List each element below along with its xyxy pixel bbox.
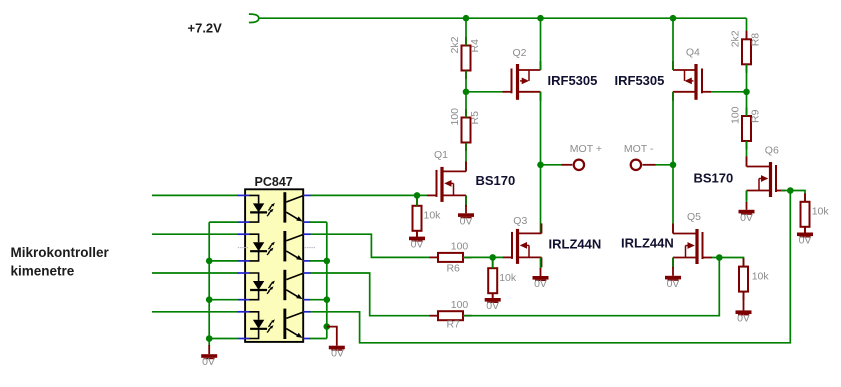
resistor R8 (2k2) (742, 31, 751, 73)
opto ch1 cathode pin (238, 221, 250, 223)
wire R9 to Q6 drain (746, 141, 748, 167)
opto ch3 collector pin (303, 272, 310, 274)
opto ch2 emitter pin (303, 260, 310, 262)
label 0V Q1 source (460, 215, 473, 227)
svg-text:R6: R6 (446, 263, 460, 275)
label R5 value 100 (449, 108, 461, 126)
label 0V Q5-10k (737, 312, 750, 324)
junction emitter ch3 (324, 296, 331, 303)
svg-text:BS170: BS170 (694, 171, 734, 186)
ground 0V below Q5 10k (736, 292, 752, 316)
transistor Q6 BS170 (747, 157, 786, 201)
svg-text:100: 100 (451, 240, 469, 252)
wire ch4 collector to Q6 gate (310, 191, 790, 343)
svg-text:R5: R5 (469, 111, 481, 125)
junction Q3 gate node (489, 254, 496, 261)
svg-text:10k: 10k (812, 206, 830, 218)
wire emitter ch2 stub (310, 260, 327, 262)
wire LED cathode common (208, 222, 210, 338)
label Q2 (513, 47, 527, 59)
wire Q5 source to ground (672, 258, 674, 276)
ground 0V opto emitter side (329, 346, 345, 351)
svg-text:0V: 0V (460, 215, 473, 227)
label Q4 (686, 47, 700, 59)
wire emitter ch4 stub (310, 338, 327, 340)
svg-text:10k: 10k (424, 210, 442, 222)
svg-text:0V: 0V (486, 300, 499, 312)
opto ch4 phototransistor (283, 309, 303, 339)
svg-text:Q4: Q4 (686, 47, 700, 59)
svg-text:0V: 0V (331, 348, 344, 360)
resistor 10k Q5 gate pulldown (739, 258, 748, 300)
transistor Q1 BS170 (427, 161, 466, 205)
label R6 value 100 (451, 240, 469, 252)
opto ch3 phototransistor (283, 270, 303, 300)
wire Q2 drain to MOT+ and Q3 drain (540, 92, 542, 234)
svg-text:R8: R8 (750, 33, 762, 47)
wire ch3 collector to R7 (310, 273, 430, 316)
svg-text:100: 100 (451, 299, 469, 311)
junction Q5 gate node (716, 254, 723, 261)
junction node A (463, 89, 470, 96)
opto ch4 cathode pin (238, 338, 250, 340)
svg-text:Q2: Q2 (513, 47, 527, 59)
label 10k Q5 (752, 271, 770, 283)
svg-text:Q3: Q3 (513, 215, 527, 227)
opto ch1 phototransistor (283, 192, 303, 222)
junction MOT+ node (537, 162, 544, 169)
svg-text:Q5: Q5 (687, 211, 701, 223)
svg-text:0V: 0V (799, 235, 812, 247)
svg-text:2k2: 2k2 (449, 36, 461, 53)
transistor Q2 IRF5305 (503, 61, 541, 101)
terminal MOT- (631, 160, 673, 170)
opto ch3 LED (250, 273, 268, 300)
svg-text:BS170: BS170 (476, 173, 516, 188)
wire Q6 source to ground (746, 191, 748, 210)
label R4 name (469, 39, 481, 53)
resistor 10k Q1 gate pulldown (413, 197, 422, 239)
ground 0V below Q3 10k (485, 293, 501, 303)
opto ch4 anode pin (238, 311, 250, 313)
svg-text:10k: 10k (499, 272, 517, 284)
microcontroller note line2 (11, 263, 75, 278)
label 0V Q3-10k (486, 300, 499, 312)
svg-text:100: 100 (449, 108, 461, 126)
optocoupler PC847 body (245, 189, 303, 342)
svg-text:0V: 0V (740, 212, 753, 224)
wire Q5 gate node to 10k (719, 258, 743, 267)
wire ch2 collector to R6 (310, 234, 430, 257)
wire node A to R5 (465, 92, 467, 118)
label MOT - (624, 143, 654, 155)
resistor R7 (100) (430, 311, 472, 320)
label 10k Q1 (424, 210, 442, 222)
label 0V Q1-10k (411, 239, 424, 251)
svg-text:IRF5305: IRF5305 (615, 73, 665, 88)
terminal MOT+ (541, 160, 585, 170)
svg-text:Q1: Q1 (434, 149, 448, 161)
svg-text:R4: R4 (469, 39, 481, 53)
resistor R4 (2k2) (462, 37, 471, 79)
svg-text:2k2: 2k2 (730, 30, 742, 47)
junction cathode ch3 (206, 296, 213, 303)
label R9 name (750, 109, 762, 123)
svg-text:R9: R9 (750, 109, 762, 123)
opto ch1 LED (250, 195, 268, 222)
wire emitter ch1 stub (310, 221, 327, 223)
wire R5 to Q1 drain (465, 143, 467, 171)
resistor R9 (100) (742, 108, 751, 150)
label R7 name (446, 318, 460, 330)
supply connector hook +7.2V (249, 14, 259, 22)
svg-text:0V: 0V (202, 356, 215, 368)
opto ch1 light arrows (267, 203, 275, 216)
wire input 4 from microcontroller (152, 311, 239, 313)
label Q1 (434, 149, 448, 161)
svg-text:PC847: PC847 (255, 175, 293, 189)
ground 0V Q5 source (665, 276, 681, 281)
junction rail at Q2 (537, 15, 544, 22)
wire emitter line to ground (327, 327, 337, 346)
wire +7.2V rail (259, 17, 747, 19)
label R9 value 100 (730, 106, 742, 124)
resistor 10k Q6 gate pulldown (801, 193, 810, 235)
wire emitter ch3 stub (310, 299, 327, 301)
label 0V Q3 source (534, 278, 547, 290)
wire input 1 from microcontroller (152, 194, 239, 196)
opto ch2 cathode pin (238, 260, 250, 262)
wire Q1 source to ground (465, 195, 467, 213)
wire R6 to Q3 gate (463, 256, 503, 258)
dotted separator mark (238, 247, 315, 248)
opto ch3 light arrows (267, 281, 275, 294)
junction Q6 gate node (787, 187, 794, 194)
opto ch2 LED (250, 234, 268, 261)
wire emitter common (326, 222, 328, 338)
ground 0V opto LED side (201, 354, 217, 359)
opto ch3 anode pin (238, 272, 250, 274)
label Q5 (687, 211, 701, 223)
svg-text:IRF5305: IRF5305 (548, 73, 598, 88)
wire cathode ch1 stub (209, 221, 238, 223)
wire Q6 gate node (781, 190, 790, 192)
label BS170 for Q6 (694, 171, 734, 186)
transistor Q4 IRF5305 (673, 61, 711, 101)
label 10k Q3 (499, 272, 517, 284)
opto ch1 anode pin (238, 194, 250, 196)
label R8 value 2k2 (730, 30, 742, 47)
junction Q1 gate node (414, 192, 421, 199)
svg-text:0V: 0V (737, 312, 750, 324)
svg-text:+7.2V: +7.2V (188, 21, 223, 36)
ground 0V Q6 source (739, 210, 755, 215)
wire Q4 drain to MOT- and Q5 drain (672, 92, 674, 234)
opto ch2 phototransistor (283, 231, 303, 261)
wire cathode ch3 stub (209, 299, 238, 301)
svg-text:0V: 0V (667, 278, 680, 290)
wire node A to Q2 gate (466, 91, 503, 93)
opto ch3 cathode pin (238, 299, 250, 301)
wire Q4 gate to node B (711, 91, 747, 93)
label R4 value 2k2 (449, 36, 461, 53)
svg-text:100: 100 (730, 106, 742, 124)
wire R8 to node B (746, 64, 748, 92)
label 0V opto emitter side (331, 348, 344, 360)
opto ch4 emitter pin (303, 338, 310, 340)
label R7 value 100 (451, 299, 469, 311)
junction MOT- node (670, 162, 677, 169)
wire input 2 from microcontroller (152, 233, 239, 235)
wire R4 to node A (465, 71, 467, 92)
svg-text:Q6: Q6 (765, 145, 779, 157)
svg-text:IRLZ44N: IRLZ44N (549, 237, 602, 252)
label MOT + (570, 143, 602, 155)
label IRLZ44N for Q3 (549, 237, 602, 252)
transistor Q5 IRLZ44N (673, 224, 712, 268)
label R6 name (446, 263, 460, 275)
opto ch4 LED (250, 312, 268, 339)
svg-text:kimenetre: kimenetre (11, 263, 75, 278)
label 0V Q6 source (740, 212, 753, 224)
wire Q3 gate node to 10k (492, 257, 494, 268)
label 10k Q6 (812, 206, 830, 218)
opto ch1 collector pin (303, 194, 310, 196)
wire rail to R4 (465, 18, 467, 45)
label IRF5305 for Q2 (548, 73, 598, 88)
junction node B (743, 89, 750, 96)
junction emitter ground tap (324, 323, 331, 330)
opto ch1 emitter pin (303, 221, 310, 223)
svg-text:10k: 10k (752, 271, 770, 283)
resistor 10k Q3 gate pulldown (488, 260, 497, 302)
label BS170 for Q1 (476, 173, 516, 188)
label R5 name (469, 111, 481, 125)
ground 0V below Q1 10k (409, 231, 425, 242)
svg-text:0V: 0V (411, 239, 424, 251)
junction rail at R4 (463, 15, 470, 22)
junction rail at Q4 (670, 15, 677, 22)
opto ch4 light arrows (267, 319, 275, 332)
wire Q3 source to ground (540, 257, 542, 276)
wire R7 to Q5 gate riser (463, 258, 719, 316)
label Q6 (765, 145, 779, 157)
wire cathode ch2 stub (209, 260, 238, 262)
opto ch4 collector pin (303, 311, 310, 313)
resistor R6 (100) (430, 253, 472, 262)
label 0V Q6-10k (799, 235, 812, 247)
label IRLZ44N for Q5 (621, 236, 674, 251)
wire Q1 gate node to 10k (416, 195, 418, 205)
ground 0V Q3 source (533, 276, 549, 281)
resistor R5 (100) (462, 109, 471, 151)
wire rail to Q4 source (672, 18, 674, 70)
power net +7.2V label (188, 21, 223, 36)
opto ch2 anode pin (238, 233, 250, 235)
ground 0V Q1 source (458, 213, 474, 218)
label 0V Q5 source (667, 278, 680, 290)
wire ch1 collector to Q1 gate (310, 194, 427, 196)
wire Q6 gate node to 10k (790, 191, 805, 202)
svg-text:MOT -: MOT - (624, 143, 654, 155)
ground 0V below Q6 10k (797, 227, 813, 238)
wire rail to Q2 source (540, 18, 542, 70)
junction cathode ch2 (206, 258, 213, 265)
wire cathode line to ground (208, 339, 210, 355)
junction cathode ch4 (206, 335, 213, 342)
junction emitter ch2 (324, 258, 331, 265)
label R8 name (750, 33, 762, 47)
opto ch3 emitter pin (303, 299, 310, 301)
label IRF5305 for Q4 (615, 73, 665, 88)
label Q3 (513, 215, 527, 227)
opto ch2 light arrows (267, 242, 275, 255)
svg-text:MOT +: MOT + (570, 143, 602, 155)
svg-text:IRLZ44N: IRLZ44N (621, 236, 674, 251)
svg-text:0V: 0V (534, 278, 547, 290)
wire input 3 from microcontroller (152, 272, 239, 274)
wire node B to R9 (746, 92, 748, 116)
transistor Q3 IRLZ44N (503, 223, 542, 267)
microcontroller note line1 (11, 245, 110, 260)
wire rail corner down to R8 (746, 18, 748, 39)
svg-text:R7: R7 (446, 318, 460, 330)
label 0V opto LED side (202, 356, 215, 368)
svg-text:Mikrokontroller: Mikrokontroller (11, 245, 110, 260)
opto ch2 collector pin (303, 233, 310, 235)
label PC847 (255, 175, 293, 189)
wire cathode ch4 stub (209, 338, 238, 340)
